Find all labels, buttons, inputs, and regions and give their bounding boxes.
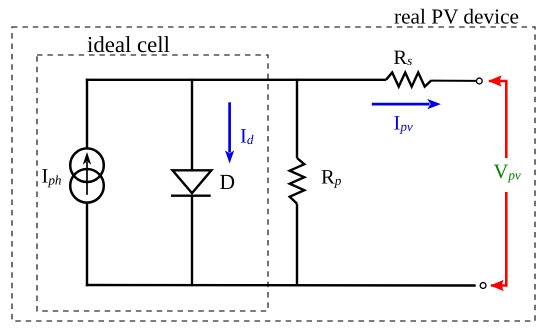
wire: Rp branch top [296, 79, 298, 158]
svg-text:Ipv: Ipv [394, 113, 413, 135]
svg-text:Rp: Rp [321, 166, 342, 188]
svg-text:real PV device: real PV device [394, 5, 519, 29]
current arrow Id (blue, downward) [228, 102, 231, 152]
diode D (triangle) [173, 170, 212, 193]
svg-text:D: D [220, 170, 236, 194]
svg-text:Vpv: Vpv [494, 161, 521, 183]
wire: left branch (current source down to bottom node) [86, 203, 88, 286]
current source internal arrow [86, 162, 88, 195]
resistor R1 Rs (series resistance, horizontal zigzag) [386, 73, 432, 87]
diode cathode bar [171, 194, 211, 196]
voltage arrow Vpv lower segment (red, to - terminal) [491, 192, 506, 286]
svg-text:Iph: Iph [42, 165, 62, 187]
resistor R2 Rp (shunt resistance, vertical zigzag) [290, 158, 305, 204]
voltage arrow Vpv upper segment (red, from + terminal) [489, 81, 506, 158]
terminal: positive (top right, open circle) [476, 78, 482, 84]
svg-text:ideal cell: ideal cell [87, 32, 170, 57]
inner dashed box (ideal cell boundary) [37, 55, 268, 311]
wire: left branch (top node down to current source) [86, 79, 88, 149]
svg-text:Id: Id [240, 125, 254, 147]
terminal: negative (bottom right, open circle) [480, 283, 486, 289]
wire: Rs to positive terminal [432, 80, 476, 82]
svg-text:Rs: Rs [393, 47, 412, 69]
wire: top horizontal (left node to Rs) [86, 79, 386, 81]
wire: Rp branch bottom [296, 204, 298, 287]
wire: diode branch top [191, 79, 193, 171]
current arrow Ipv (blue, rightward) [372, 103, 430, 106]
current source U1 Iph (two overlapping circles) [70, 148, 104, 182]
wire: bottom horizontal [86, 284, 476, 287]
wire: diode branch bottom [191, 196, 193, 287]
